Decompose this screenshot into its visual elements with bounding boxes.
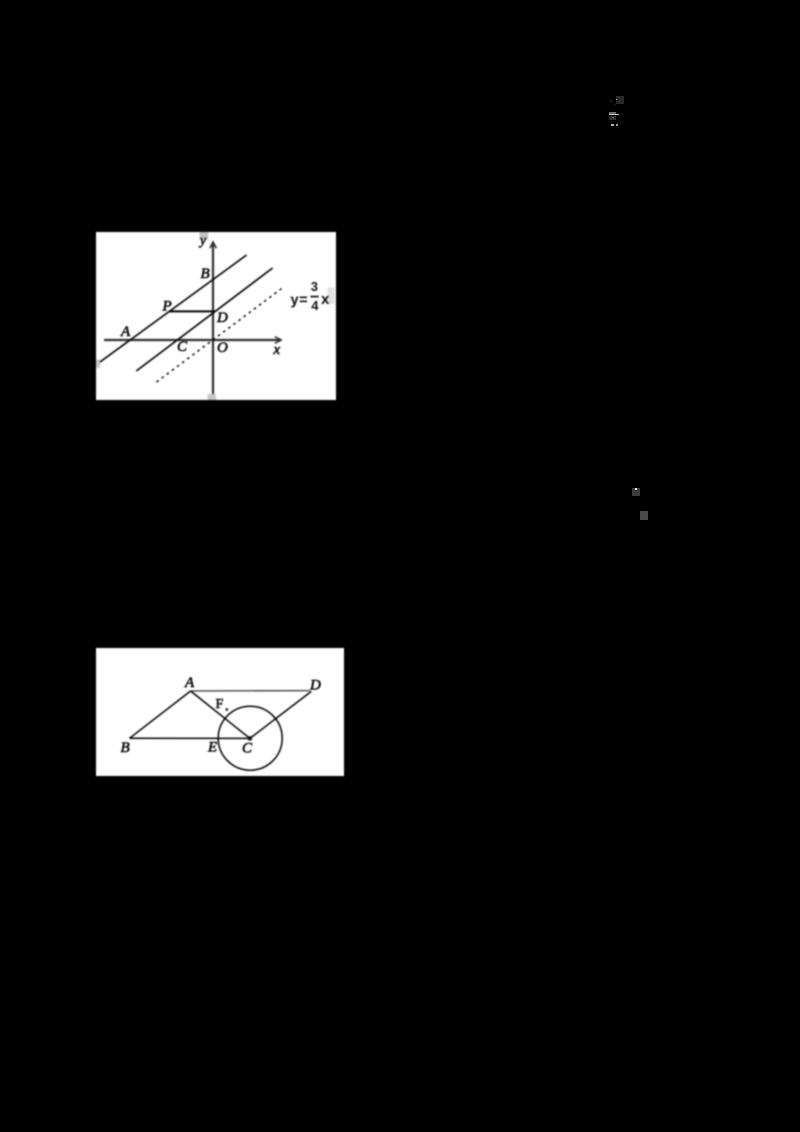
figure 1: coordinate-plane diagram box [96, 232, 336, 400]
side A-B [130, 691, 191, 738]
svg-text:F: F [216, 697, 224, 712]
line through A and B [100, 255, 247, 362]
scan smudge left edge at line A end [96, 360, 101, 369]
svg-text:A: A [184, 675, 195, 691]
svg-text:3: 3 [311, 279, 318, 294]
x-axis arrowhead [275, 337, 281, 344]
svg-text:E: E [207, 740, 217, 756]
scan smudge bottom of y-axis [208, 394, 217, 400]
scan smudge top of y-axis [200, 232, 209, 240]
dotted line y=3/4x [157, 288, 284, 383]
x-axis [104, 339, 280, 341]
side A-D [191, 690, 310, 692]
diagonal A-C through F [191, 691, 250, 738]
faint scan artifact cluster top-right [616, 96, 624, 104]
svg-text:P: P [162, 299, 172, 315]
svg-text:y=: y= [291, 293, 309, 309]
circle centered at C [218, 706, 282, 770]
svg-text:y: y [198, 233, 206, 248]
scan smudge behind formula x [328, 288, 335, 305]
y-axis [212, 243, 214, 394]
point F dot [225, 708, 228, 711]
svg-text:C: C [242, 741, 253, 757]
svg-text:x: x [273, 342, 281, 358]
side B-C through E [130, 737, 250, 739]
faint scan artifact cluster mid-right [632, 488, 640, 496]
svg-text:x: x [321, 291, 330, 308]
y-axis arrowhead [210, 242, 217, 248]
svg-text:4: 4 [311, 298, 319, 313]
segment P to D [169, 310, 215, 312]
side C-D [250, 691, 311, 738]
svg-text:B: B [121, 740, 130, 756]
point C dot [248, 736, 253, 741]
svg-text:O: O [217, 340, 228, 356]
svg-text:C: C [177, 339, 188, 355]
svg-text:B: B [201, 266, 210, 282]
line through C and D [136, 268, 272, 371]
svg-text:A: A [120, 324, 131, 340]
svg-text:D: D [216, 310, 228, 326]
svg-text:D: D [309, 678, 321, 694]
formula y = 3/4 x [291, 279, 331, 313]
figure 2: parallelogram with circle box [96, 648, 344, 776]
